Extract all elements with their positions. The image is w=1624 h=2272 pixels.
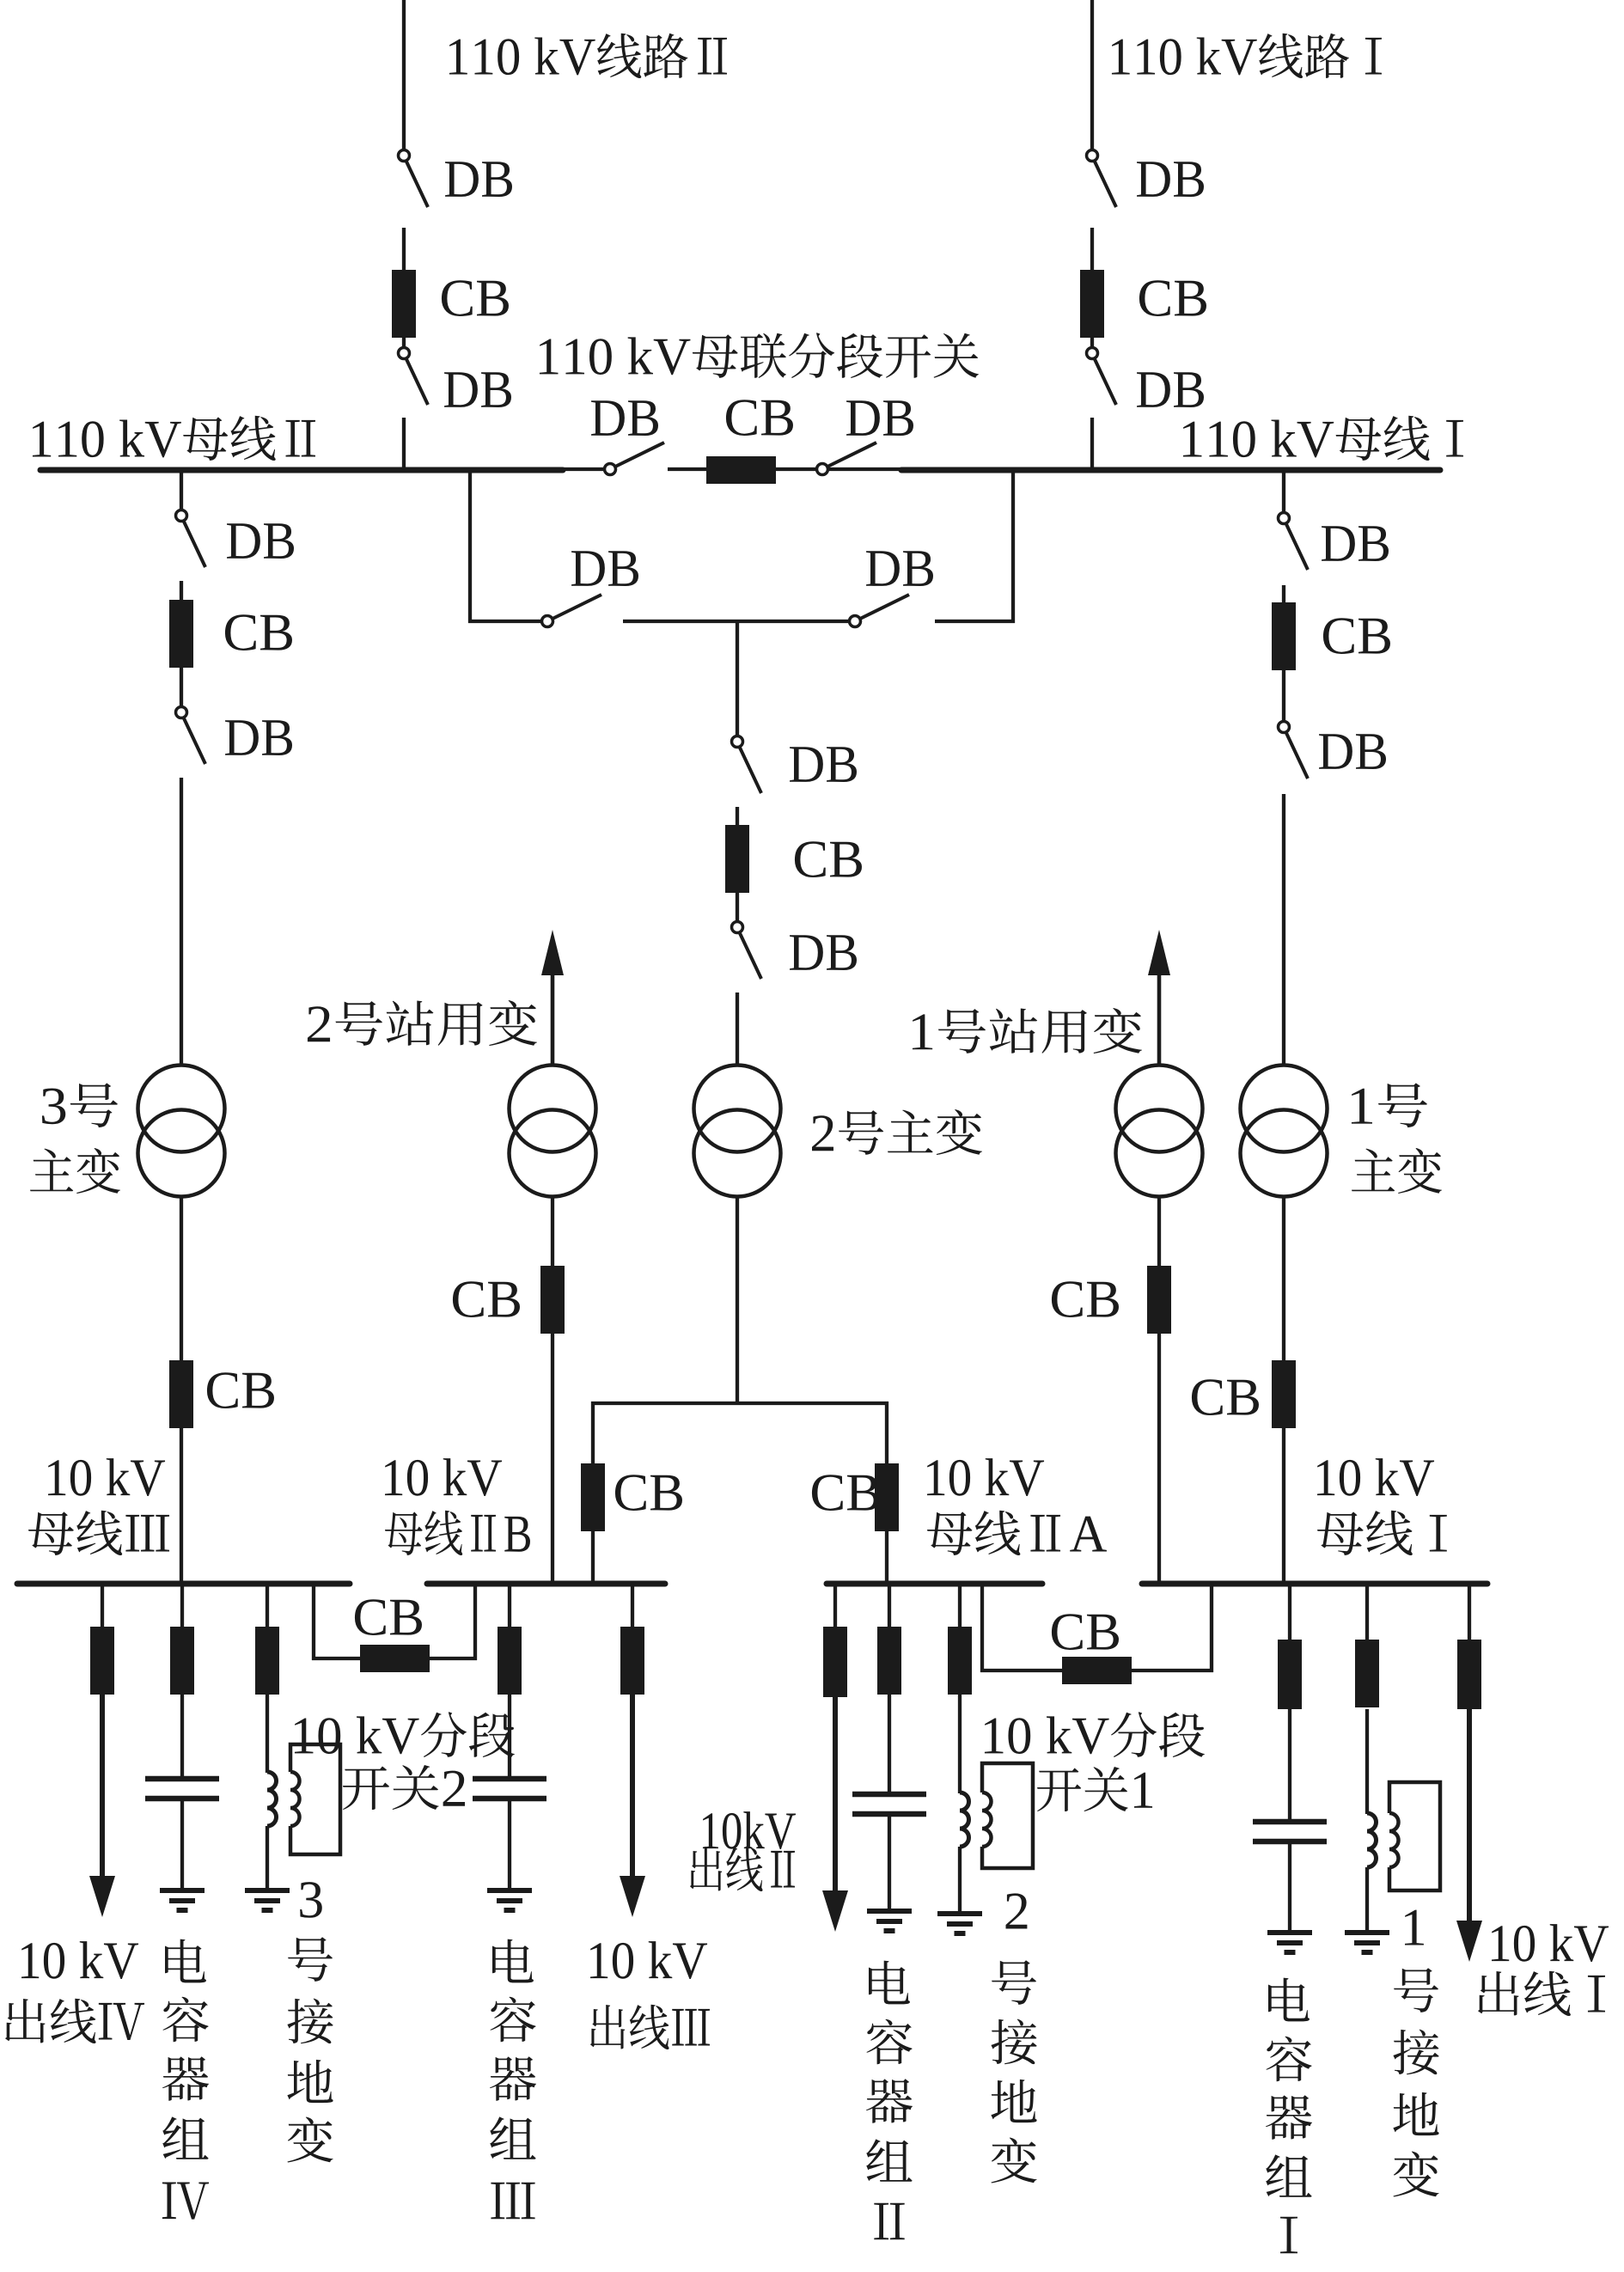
wire [958, 1695, 962, 1793]
wire [736, 807, 739, 827]
label 10kV bus I [1317, 1458, 1434, 1496]
bus 10 kV bus IIA [827, 1581, 1042, 1587]
arrow 10 kV feeder II [822, 1890, 848, 1932]
winding box grounding transformer 2 [982, 1763, 1033, 1868]
label 开关2 [343, 1765, 465, 1810]
ground capacitor IV [160, 1890, 205, 1910]
wire [508, 1695, 511, 1777]
label bus IIB name [385, 1511, 530, 1555]
wire capacitor bank I [1288, 1586, 1291, 1641]
label CB [355, 1599, 422, 1635]
label 出线II [690, 1847, 795, 1891]
wire [776, 467, 817, 471]
label DB [571, 551, 638, 586]
wire feeder IV outgoing [100, 1695, 105, 1878]
label CB [726, 400, 793, 436]
label CB [1139, 280, 1206, 316]
wire [180, 581, 183, 602]
label DB [1319, 734, 1386, 769]
ground capacitor I [1267, 1933, 1312, 1952]
ground grounding transformer 2 [937, 1914, 982, 1933]
wire feeder IV [101, 1586, 104, 1628]
label capacitor bank I [1266, 1978, 1312, 2254]
wire [958, 1847, 962, 1914]
label main transformer 3 [42, 1083, 118, 1127]
label capacitor bank IV [162, 1939, 209, 2220]
label DB [445, 162, 512, 197]
label CB [1323, 618, 1390, 654]
wire section switch 1 left leg [980, 1586, 984, 1672]
label CB [1192, 1379, 1259, 1415]
disconnector DB transformer 2 upper [732, 736, 762, 794]
wire [888, 1695, 891, 1793]
transformer T3 (3号主变) [138, 1066, 225, 1197]
wire [668, 467, 706, 471]
ground capacitor II [867, 1911, 912, 1931]
wire [935, 620, 1015, 623]
wire section switch 1 [980, 1669, 1213, 1672]
bus 10 kV bus IIB [427, 1581, 665, 1587]
wire [266, 1695, 269, 1773]
label CB [1052, 1614, 1119, 1650]
capacitor C I [1253, 1822, 1327, 1841]
wire incoming line II [402, 0, 406, 150]
ground capacitor III [487, 1890, 532, 1910]
label 出线III [590, 2005, 710, 2049]
disconnector DB line I upper [1087, 150, 1117, 208]
label CB [615, 1475, 682, 1511]
wire T2 split left leg [591, 1402, 595, 1465]
breaker CB T2 to bus IIB [581, 1463, 605, 1531]
wire bus-tie [563, 467, 605, 471]
disconnector DB transformer 3 lower [176, 707, 206, 765]
breaker CB station 2 [540, 1266, 565, 1334]
label bus IIA name [927, 1511, 1107, 1555]
bus 110 kV bus II [40, 467, 563, 473]
wire [1282, 585, 1285, 604]
label DB [227, 523, 294, 559]
wire [885, 1530, 888, 1582]
capacitor C III [473, 1779, 546, 1799]
wire [1090, 338, 1094, 348]
wire [1090, 418, 1094, 472]
wire grounding transformer 1 [1365, 1586, 1369, 1641]
wire T1 low side [1282, 1197, 1285, 1362]
label 10kV bus III [48, 1458, 165, 1496]
label DB [1137, 162, 1204, 197]
wire incoming line I [1090, 0, 1094, 150]
wire [888, 1814, 891, 1911]
capacitor C II [852, 1794, 926, 1814]
breaker CB bus-tie [706, 456, 776, 484]
wire [1157, 1334, 1161, 1582]
breaker CB transformer 3 110kV [169, 600, 193, 668]
wire [180, 668, 183, 707]
label 10kV bus IIB [385, 1458, 502, 1496]
inductor grounding transformer 2 [960, 1793, 969, 1847]
wire station transformer 2 output [551, 974, 555, 1066]
wire T2 low side [736, 1197, 739, 1403]
breaker CB capacitor III [498, 1627, 522, 1695]
disconnector DB transformer 2 lower [732, 922, 762, 980]
label CB [795, 841, 862, 877]
label bus III name [28, 1511, 169, 1555]
wire [1282, 794, 1285, 1066]
breaker CB line I [1080, 270, 1104, 338]
arrow 10 kV feeder III [620, 1876, 645, 1917]
breaker CB transformer 1 110kV [1272, 602, 1296, 670]
label main transformer 2 [812, 1109, 982, 1155]
wire capacitor bank III [508, 1586, 511, 1628]
breaker CB capacitor II [877, 1627, 901, 1695]
wire grounding transformer 3 [266, 1586, 269, 1628]
ground grounding transformer 3 [245, 1890, 290, 1910]
transformer station 1 (1号站用变) [1116, 1066, 1203, 1197]
wire [828, 467, 901, 471]
bus 110 kV bus I [901, 467, 1440, 473]
label DB [866, 551, 933, 586]
label 110 kV line I [1112, 34, 1382, 78]
wire to transformer 2 [736, 621, 739, 736]
label DB [790, 935, 857, 970]
wire [180, 1428, 183, 1582]
wire station 1 low side [1157, 1197, 1161, 1267]
wire [402, 418, 406, 472]
label 出线I [1478, 1971, 1605, 2016]
wire [1365, 1709, 1369, 1814]
label 10kV feeder II [703, 1811, 796, 1849]
wire to transformer 1 [1282, 473, 1285, 513]
label DB [444, 372, 511, 407]
label station transformer 2 [308, 1000, 537, 1046]
inductor grounding transformer 3 [267, 1772, 277, 1826]
label 开关1 [1037, 1767, 1152, 1811]
label 110 kV line II [449, 34, 727, 78]
disconnector DB transformer 1 lower [1279, 722, 1309, 779]
label 10kV section switch 1 [985, 1712, 1205, 1757]
wire [180, 1695, 184, 1777]
breaker CB station 1 [1147, 1266, 1171, 1334]
wire transfer drop from bus II [468, 473, 472, 623]
label CB [442, 280, 509, 316]
breaker CB line II [392, 270, 416, 338]
disconnector DB line II lower [399, 348, 429, 406]
wire section switch 2 [312, 1657, 477, 1660]
disconnector DB transformer 1 upper [1279, 513, 1309, 571]
breaker CB feeder IV [90, 1627, 114, 1695]
wire station transformer 1 output [1157, 974, 1162, 1066]
label 10kV feeder III [590, 1941, 707, 1979]
disconnector DB line I lower [1087, 348, 1117, 406]
disconnector DB transfer right [850, 595, 910, 627]
label station transformer 1 [913, 1008, 1142, 1054]
wire [551, 1334, 554, 1582]
wire section switch 2 right leg [473, 1586, 477, 1660]
wire section switch 2 left leg [312, 1586, 315, 1660]
wire section switch 1 right leg [1210, 1586, 1213, 1672]
bus 10 kV bus I (10kV) [1142, 1581, 1487, 1587]
disconnector DB bus-tie left [605, 443, 665, 475]
wire [1282, 1428, 1285, 1582]
label capacitor bank III [490, 1939, 536, 2220]
wire [180, 1799, 184, 1890]
wire feeder III outgoing [630, 1695, 635, 1878]
capacitor C IV [145, 1779, 219, 1799]
wire [1288, 1709, 1291, 1820]
label 出线IV [5, 1999, 144, 2043]
wire [1282, 670, 1285, 722]
label DB [591, 400, 658, 436]
disconnector DB transfer left [542, 595, 602, 627]
breaker CB feeder II [823, 1627, 847, 1697]
wire to transformer 3 [180, 473, 183, 510]
wire [591, 1530, 595, 1582]
wire [402, 228, 406, 272]
wire feeder II [833, 1586, 837, 1628]
label CB [812, 1475, 879, 1511]
wire feeder I outgoing [1467, 1709, 1472, 1922]
disconnector DB transformer 3 upper [176, 510, 206, 568]
label 110 kV bus II [33, 416, 315, 461]
label 10kV feeder I [1492, 1924, 1609, 1962]
label 110 kV bus I [1183, 416, 1463, 461]
label capacitor bank II [866, 1961, 913, 2240]
breaker CB transformer 2 [725, 825, 749, 893]
wire [1365, 1867, 1369, 1933]
label 110 kV bus-tie switch [540, 333, 979, 378]
wire [508, 1799, 511, 1890]
wire T3 low side [180, 1197, 183, 1362]
wire feeder II outgoing [833, 1697, 838, 1892]
label DB [1137, 372, 1204, 407]
wire [468, 620, 542, 623]
transformer T1 (1号主变) [1241, 1066, 1328, 1197]
disconnector DB bus-tie right [817, 443, 877, 475]
wire T2 split right leg [885, 1402, 888, 1465]
wire transfer middle [623, 620, 850, 623]
label CB [453, 1281, 520, 1317]
arrow 10 kV feeder I [1456, 1921, 1482, 1962]
breaker CB T1 10kV [1272, 1360, 1296, 1428]
label DB [225, 720, 292, 755]
wire [736, 992, 739, 1066]
label DB [846, 400, 913, 436]
wire transfer drop from bus I [1011, 473, 1015, 623]
label 主变 [30, 1148, 120, 1194]
breaker CB grounding transformer 3 [255, 1627, 279, 1695]
arrow station transformer 2 [541, 930, 564, 975]
breaker CB feeder I [1457, 1640, 1481, 1709]
inductor grounding transformer 1 [1367, 1813, 1377, 1867]
wire [1288, 1841, 1291, 1933]
breaker CB T3 10kV [169, 1360, 193, 1428]
breaker CB feeder III [620, 1627, 644, 1695]
ground grounding transformer 1 [1345, 1933, 1389, 1952]
breaker CB capacitor I [1278, 1640, 1302, 1709]
label DB [790, 747, 857, 782]
label 10kV bus IIA [927, 1458, 1044, 1496]
label main transformer 1 [1352, 1083, 1427, 1127]
breaker CB grounding transformer 1 [1355, 1640, 1379, 1707]
label CB [225, 614, 292, 650]
label grounding transformer 2 [991, 1893, 1036, 2183]
wire station 2 low side [551, 1197, 554, 1267]
label grounding transformer 1 [1393, 1910, 1438, 2197]
arrow station transformer 1 [1148, 930, 1170, 975]
transformer station 2 (2号站用变) [510, 1066, 596, 1197]
bus 10 kV bus III [17, 1581, 350, 1587]
label 主变 [1352, 1148, 1442, 1194]
wire [736, 893, 739, 922]
winding box grounding transformer 3 [290, 1744, 340, 1854]
breaker CB section switch 1 [1062, 1657, 1132, 1684]
breaker CB grounding transformer 2 [948, 1627, 972, 1695]
breaker CB section switch 2 [360, 1645, 430, 1672]
wire [402, 338, 406, 348]
wire [266, 1826, 269, 1890]
wire feeder I [1468, 1586, 1471, 1641]
wire T2 split header [591, 1402, 888, 1405]
label CB [1052, 1281, 1119, 1317]
breaker CB capacitor IV [170, 1627, 194, 1695]
label grounding transformer 3 [287, 1882, 333, 2162]
disconnector DB line II upper [399, 150, 429, 208]
wire feeder III [631, 1586, 634, 1628]
arrow 10 kV feeder IV [89, 1876, 115, 1917]
winding box grounding transformer 1 [1389, 1782, 1440, 1890]
wire [1090, 228, 1094, 272]
label CB [207, 1372, 274, 1408]
label 10kV feeder IV [21, 1941, 138, 1979]
label bus I name [1317, 1511, 1447, 1555]
wire grounding transformer 2 [958, 1586, 962, 1628]
label DB [1322, 526, 1389, 561]
wire [180, 778, 183, 1066]
label 10kV section switch 2 [295, 1712, 515, 1757]
breaker CB T2 to bus IIA [875, 1463, 899, 1531]
wire capacitor bank IV [180, 1586, 184, 1628]
wire capacitor bank II [888, 1586, 891, 1628]
transformer T2 (2号主变) [694, 1066, 781, 1197]
